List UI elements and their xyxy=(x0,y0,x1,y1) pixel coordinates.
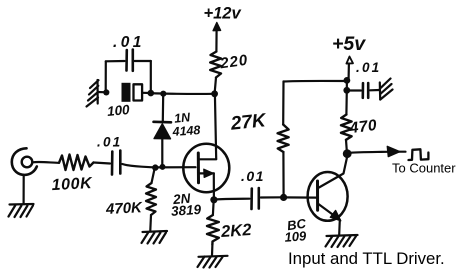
svg-text:To Counter: To Counter xyxy=(392,161,456,176)
node bypass-left junction xyxy=(103,89,109,95)
wire diode bottom to gate node xyxy=(161,139,163,167)
input connector J1 xyxy=(12,148,37,175)
wire R5 to +5V branch xyxy=(282,82,284,125)
resistor R1 100K xyxy=(59,155,94,171)
wire cap node to R6 xyxy=(345,91,348,115)
output arrowhead xyxy=(387,146,400,156)
diode D1 1N4148 xyxy=(154,122,172,139)
resistor R2 470K xyxy=(146,183,156,215)
svg-text:+12v: +12v xyxy=(204,5,242,23)
label 100K xyxy=(51,175,93,194)
ground (below R4) xyxy=(198,256,228,268)
wire drain node to JFET drain xyxy=(215,94,216,159)
wire R6 to collector node xyxy=(345,140,348,151)
wire base node to Q2 base xyxy=(284,196,316,198)
JFET Q1 2N3819 xyxy=(183,144,229,198)
resistor R3 220 xyxy=(210,52,221,78)
wire gate node to R2 xyxy=(152,169,155,183)
square wave symbol xyxy=(409,149,429,160)
wire loop top-right xyxy=(135,60,151,62)
ground (input) xyxy=(9,204,34,217)
svg-text:2K2: 2K2 xyxy=(220,221,252,241)
node +5V cap junction xyxy=(343,87,350,94)
transistor Q2 BC109 xyxy=(308,172,348,235)
wire loop right side xyxy=(150,61,152,93)
svg-text:470K: 470K xyxy=(105,199,144,218)
wire ground to bypass pair xyxy=(98,91,107,94)
label +5V xyxy=(332,33,366,55)
label C3 .01 xyxy=(241,168,265,184)
svg-text:470: 470 xyxy=(348,117,378,137)
wire +5V branch horizontal xyxy=(284,80,347,83)
power arrow +12V xyxy=(213,23,221,52)
label 470 xyxy=(348,117,378,137)
resistor R6 470 xyxy=(341,115,352,140)
label 2N3819 xyxy=(171,191,202,219)
wire R2 to ground xyxy=(149,215,152,231)
label 2K2 xyxy=(220,221,252,241)
node +5V upper junction xyxy=(344,77,351,84)
wire diode top to rail xyxy=(162,95,165,122)
wire R1 to C1 xyxy=(94,163,111,164)
node loop-right junction xyxy=(148,90,155,97)
node diode-rail junction xyxy=(160,91,166,97)
wire C1 to gate node xyxy=(122,164,154,167)
ground (bypass, left) xyxy=(87,80,99,107)
wire R4 to ground xyxy=(211,245,214,256)
svg-text:.01: .01 xyxy=(241,168,265,184)
label C1 .01 xyxy=(97,135,122,150)
wire C3 to base node xyxy=(261,196,283,198)
label 100 xyxy=(106,102,130,119)
caption: Input and TTL Driver. xyxy=(288,249,445,268)
label +12V xyxy=(204,5,242,23)
capacitor C2 .01 (bypass) xyxy=(127,50,133,71)
svg-text:.01: .01 xyxy=(113,34,145,51)
node source junction xyxy=(210,196,217,203)
wire rail to drain node xyxy=(151,92,215,95)
ground (below Q2 emitter) xyxy=(326,235,358,247)
wire J1 to R1 xyxy=(33,161,60,164)
label 27K xyxy=(229,110,268,135)
wire source node to C3 xyxy=(215,198,250,201)
label C2 .01 xyxy=(113,34,145,51)
svg-text:27K: 27K xyxy=(229,110,268,135)
label BC109 xyxy=(284,216,307,245)
wire gate node to JFET gate xyxy=(155,166,195,168)
node base junction xyxy=(280,194,287,201)
svg-text:100K: 100K xyxy=(51,175,93,194)
label C4 .01 xyxy=(356,60,381,75)
label 1N4148 xyxy=(171,110,201,139)
svg-text:+5v: +5v xyxy=(332,33,366,55)
capacitor C4 .01 xyxy=(363,83,368,98)
capacitor C100 (electrolytic 100) xyxy=(122,83,143,102)
capacitor C3 .01 xyxy=(252,188,259,209)
svg-text:100: 100 xyxy=(106,102,130,119)
wire source node to R4 xyxy=(212,200,215,215)
wire cap node to C4 xyxy=(347,89,361,91)
wire base node to R5 xyxy=(282,152,284,196)
wire collector node to Q2 collector xyxy=(319,156,347,188)
ground (below R2) xyxy=(142,231,168,244)
ground (right of C4) xyxy=(380,79,393,100)
resistor R4 2K2 xyxy=(207,215,219,245)
svg-text:.01: .01 xyxy=(356,60,381,75)
label 470K xyxy=(105,199,144,218)
svg-text:109: 109 xyxy=(284,228,307,245)
capacitor C1 .01 xyxy=(112,151,120,175)
wire J1 to ground xyxy=(23,175,25,203)
node gate junction xyxy=(152,164,165,171)
svg-text:Input and TTL Driver.: Input and TTL Driver. xyxy=(288,249,445,268)
wire bypass to rail node xyxy=(143,92,151,94)
wire R3 to drain node xyxy=(215,78,216,93)
wire loop left side xyxy=(105,61,107,92)
resistor R5 27K xyxy=(278,125,289,153)
svg-text:4148: 4148 xyxy=(171,123,201,139)
node collector junction xyxy=(343,149,352,158)
label 220 xyxy=(218,52,249,73)
svg-text:.01: .01 xyxy=(97,135,122,150)
wire collector node to output xyxy=(349,152,406,153)
wire +5V node to cap node xyxy=(346,80,348,89)
wire C4 to ground xyxy=(370,89,379,92)
node drain junction xyxy=(211,90,218,97)
power arrow +5V xyxy=(346,57,353,79)
wire loop top-left xyxy=(106,60,125,62)
label To Counter xyxy=(392,161,456,176)
svg-text:220: 220 xyxy=(218,52,249,73)
svg-text:3819: 3819 xyxy=(171,202,202,219)
